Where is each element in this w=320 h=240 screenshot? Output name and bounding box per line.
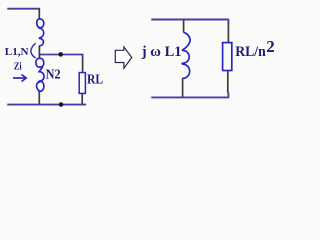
wire: stub coil bottom to bottom rail	[38, 92, 40, 105]
junction dot: bottom node	[59, 102, 64, 107]
wire: primary top lead	[7, 8, 40, 10]
inductor L1,N1 upper winding	[37, 19, 44, 47]
wire: stub top rail to coil L1	[183, 20, 185, 33]
wire: tap lead to RL	[40, 54, 83, 58]
resistor RL (left circuit)	[79, 73, 85, 94]
wire: equivalent circuit top rail	[151, 19, 228, 24]
svg-text:RL/n: RL/n	[235, 44, 266, 60]
svg-text:L1,N: L1,N	[5, 46, 29, 58]
wire: right branch stub bottom	[227, 71, 229, 94]
wire: primary bottom rail	[7, 104, 86, 106]
wire: stub RL bottom to bottom rail	[81, 93, 83, 104]
svg-text:j ω L1: j ω L1	[141, 44, 182, 60]
svg-text:RL: RL	[87, 73, 103, 88]
wire: right branch stub top	[227, 23, 229, 43]
wire: tap stub at winding tap	[38, 47, 40, 58]
equivalence arrow (hollow block arrow)	[115, 47, 131, 68]
wire: stub from tap corner down to RL top	[82, 57, 84, 73]
brace pointing from label L1,N to winding	[31, 44, 36, 58]
wire: stub coil bottom to bottom rail	[182, 78, 184, 97]
inductor N2 lower winding	[36, 58, 44, 93]
svg-text:Zi: Zi	[14, 61, 22, 73]
inductor j w L1	[182, 32, 190, 78]
svg-text:N2: N2	[46, 67, 61, 82]
junction dot: tap node	[58, 52, 63, 57]
wire: corner stub to coil top	[38, 8, 40, 19]
wire: equivalent circuit bottom rail	[151, 93, 228, 99]
arrow: input impedance Zi direction	[13, 75, 26, 82]
resistor RL/n^2	[223, 43, 232, 71]
svg-text:2: 2	[266, 37, 275, 56]
